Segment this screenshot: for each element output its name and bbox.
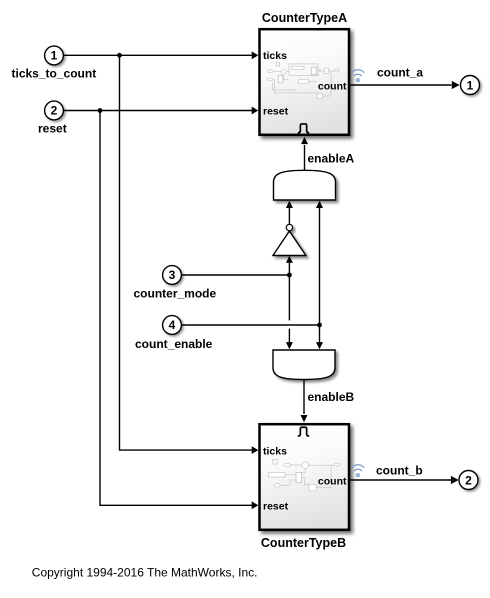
CounterTypeA preview sketch	[267, 63, 339, 99]
wire enableA	[301, 137, 308, 170]
svg-text:count_b: count_b	[376, 464, 423, 478]
CounterTypeA port label count	[318, 80, 347, 92]
outport 2	[459, 471, 478, 490]
label enableA	[308, 151, 355, 165]
junction reset	[98, 108, 103, 113]
copyright	[32, 565, 258, 579]
wire count_enable down to AND-B right input	[316, 325, 323, 349]
CounterTypeB port label ticks	[263, 445, 287, 457]
svg-text:1: 1	[51, 49, 58, 63]
CounterTypeA title	[262, 11, 347, 25]
label count_enable	[135, 337, 213, 351]
NOT gate	[273, 224, 306, 255]
junction count_enable	[317, 323, 322, 328]
subsystem CounterTypeA	[260, 29, 350, 135]
CounterTypeA port label reset	[263, 106, 289, 118]
subsystem CounterTypeB	[260, 424, 350, 530]
wire count_a to outport1	[350, 81, 460, 89]
CounterTypeB port label count	[318, 475, 347, 487]
svg-text:count_a: count_a	[377, 66, 423, 80]
logging badge count_a	[352, 70, 364, 83]
wire inport2 to CounterTypeA reset	[63, 107, 258, 115]
svg-text:reset: reset	[263, 501, 289, 513]
label enableB	[308, 390, 355, 404]
label reset	[38, 122, 67, 136]
wire ticks branch to CounterTypeB	[120, 55, 259, 454]
wire inport3 counter_mode	[181, 274, 289, 276]
svg-text:reset: reset	[263, 106, 289, 118]
svg-text:count: count	[318, 80, 347, 92]
AND gate (enableA)	[274, 170, 336, 200]
inport 1	[45, 46, 64, 65]
svg-text:4: 4	[169, 318, 176, 332]
wire enableB	[301, 380, 308, 423]
label count_a	[377, 66, 423, 80]
svg-text:enableA: enableA	[308, 151, 355, 165]
CounterTypeB enable pulse icon	[298, 427, 309, 436]
inport 3	[163, 266, 182, 285]
svg-text:reset: reset	[38, 122, 67, 136]
svg-text:ticks: ticks	[263, 50, 287, 62]
svg-text:2: 2	[51, 104, 58, 118]
label count_b	[376, 464, 423, 478]
CounterTypeB port label reset	[263, 501, 289, 513]
wire count_b to outport2	[350, 476, 459, 484]
svg-text:3: 3	[169, 268, 176, 282]
CounterTypeA enable pulse icon	[298, 124, 309, 133]
svg-text:Copyright 1994-2016 The MathWo: Copyright 1994-2016 The MathWorks, Inc.	[32, 565, 258, 579]
CounterTypeB title	[261, 536, 346, 550]
label counter_mode	[134, 286, 217, 300]
wire counter_mode branch down to AND-B left input	[286, 275, 293, 349]
outport 1	[461, 76, 480, 95]
wire inport4 count_enable	[181, 324, 320, 326]
wire inport1 to CounterTypeA ticks	[63, 51, 258, 59]
svg-text:ticks_to_count: ticks_to_count	[12, 66, 97, 80]
junction counter_mode	[287, 273, 292, 278]
CounterTypeA port label ticks	[263, 50, 287, 62]
svg-text:counter_mode: counter_mode	[134, 286, 217, 300]
inport 4	[163, 316, 182, 335]
svg-text:2: 2	[465, 474, 472, 488]
CounterTypeB preview sketch	[268, 460, 339, 491]
junction ticks	[117, 53, 122, 58]
svg-text:count_enable: count_enable	[135, 337, 213, 351]
svg-text:enableB: enableB	[308, 390, 355, 404]
logging badge count_b	[352, 465, 364, 478]
inport 2	[45, 101, 64, 120]
AND gate (enableB)	[273, 350, 335, 380]
wire count_enable up to AND-A right input	[316, 201, 323, 325]
wire NOT output to AND-A left input	[286, 201, 293, 225]
wire counter_mode to NOT input	[286, 256, 293, 275]
svg-text:CounterTypeB: CounterTypeB	[261, 536, 346, 550]
svg-text:count: count	[318, 475, 347, 487]
svg-text:CounterTypeA: CounterTypeA	[262, 11, 347, 25]
svg-text:1: 1	[467, 79, 474, 93]
label ticks_to_count	[12, 66, 97, 80]
wire reset branch to CounterTypeB	[100, 111, 258, 510]
svg-text:ticks: ticks	[263, 445, 287, 457]
